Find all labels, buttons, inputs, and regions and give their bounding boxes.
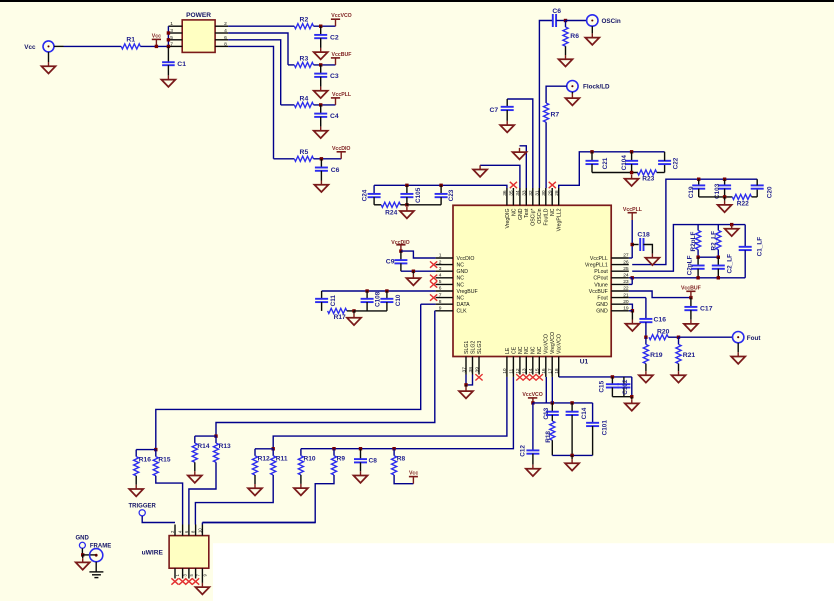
svg-text:Test: Test [524,208,530,218]
svg-text:6: 6 [439,286,442,292]
svg-text:DATA: DATA [457,302,471,308]
svg-text:R22: R22 [737,201,749,208]
svg-text:C19: C19 [688,186,695,198]
svg-text:VccPLL: VccPLL [332,92,352,98]
svg-text:27: 27 [623,253,629,259]
svg-text:21: 21 [623,292,629,298]
svg-text:SLG1: SLG1 [464,341,470,354]
svg-text:C6: C6 [331,167,340,174]
svg-text:R11: R11 [276,456,288,463]
svg-text:C10: C10 [395,294,402,306]
svg-text:38: 38 [468,367,474,373]
svg-text:R15: R15 [158,456,170,463]
svg-text:4: 4 [439,273,442,279]
svg-text:CE: CE [511,346,517,354]
svg-text:C2_LF: C2_LF [727,254,734,274]
svg-text:NC: NC [457,263,465,269]
svg-text:5: 5 [439,279,442,285]
svg-text:R14: R14 [197,443,209,450]
svg-text:R17: R17 [334,314,346,321]
svg-text:R6: R6 [570,33,579,40]
svg-text:C17: C17 [700,305,713,312]
svg-text:Vcc: Vcc [152,33,161,39]
svg-text:R13: R13 [219,443,231,450]
svg-text:SLG2: SLG2 [470,341,476,354]
svg-text:26: 26 [623,259,629,265]
svg-text:2: 2 [224,21,227,27]
svg-text:C105: C105 [415,187,422,203]
svg-text:NC: NC [457,296,465,302]
svg-text:NC: NC [531,346,537,354]
svg-text:R18: R18 [545,431,552,443]
svg-text:4: 4 [224,28,227,34]
svg-text:C1_LF: C1_LF [756,237,763,257]
svg-text:VccVCO: VccVCO [544,334,550,354]
svg-text:R12: R12 [258,456,270,463]
svg-text:3: 3 [439,266,442,272]
svg-text:R21: R21 [683,352,696,359]
svg-text:GND: GND [457,269,469,275]
svg-text:20: 20 [623,299,629,305]
svg-text:GND: GND [596,302,608,308]
svg-text:SLG3: SLG3 [477,341,483,354]
svg-text:8: 8 [439,299,442,305]
svg-text:C18: C18 [637,232,650,239]
svg-text:34: 34 [515,190,521,196]
svg-text:VccDIO: VccDIO [332,146,350,152]
svg-text:36: 36 [502,190,508,196]
svg-text:R23: R23 [642,176,654,183]
svg-text:CPout: CPout [593,276,608,282]
svg-text:Vcc: Vcc [24,44,36,51]
svg-text:NC: NC [537,346,543,354]
svg-text:VregVCO: VregVCO [550,332,556,354]
svg-text:NC: NC [457,282,465,288]
svg-text:C7: C7 [490,107,499,114]
svg-text:14: 14 [528,368,534,374]
svg-text:NC: NC [518,346,524,354]
svg-text:NC: NC [457,276,465,282]
svg-text:33: 33 [522,190,528,196]
svg-text:R2: R2 [300,17,309,24]
svg-text:GND: GND [596,309,608,315]
svg-text:C9: C9 [386,258,395,265]
svg-text:15: 15 [535,368,541,374]
svg-text:39: 39 [474,367,480,373]
svg-text:C14: C14 [581,407,588,419]
svg-text:NC: NC [524,346,530,354]
svg-text:1: 1 [439,253,442,259]
svg-text:PLout: PLout [594,269,608,275]
svg-text:POWER: POWER [186,12,211,19]
svg-text:R24: R24 [385,209,397,216]
svg-text:C104: C104 [621,155,628,171]
svg-text:VccVCO: VccVCO [331,13,351,19]
svg-text:22: 22 [623,286,629,292]
svg-text:NC: NC [550,208,556,216]
svg-text:GND: GND [518,208,524,220]
svg-text:C12: C12 [519,445,526,457]
svg-text:C23: C23 [448,189,455,201]
svg-text:C22: C22 [673,157,680,169]
svg-text:30: 30 [541,190,547,196]
svg-text:C15: C15 [599,380,606,392]
svg-text:19: 19 [623,306,629,312]
svg-text:R2_LF: R2_LF [710,231,717,251]
svg-text:24: 24 [623,273,629,279]
svg-text:C11: C11 [330,295,337,307]
svg-text:R20: R20 [657,329,670,336]
svg-text:7: 7 [439,292,442,298]
svg-text:R3: R3 [300,55,309,62]
svg-text:NC: NC [511,208,517,216]
svg-text:R19: R19 [650,352,663,359]
svg-text:Fout: Fout [597,296,608,302]
svg-text:C1: C1 [177,61,186,68]
svg-text:11: 11 [509,368,515,373]
svg-text:Vtune: Vtune [594,282,608,288]
svg-text:VccDIO: VccDIO [457,256,475,262]
svg-text:GND: GND [76,535,90,541]
svg-text:Fout: Fout [747,335,762,342]
svg-text:R5: R5 [300,149,309,156]
svg-text:VccVCO: VccVCO [557,334,563,354]
svg-text:VccBUF: VccBUF [681,285,701,291]
svg-text:C21: C21 [602,157,609,169]
svg-text:23: 23 [623,279,629,285]
svg-text:7: 7 [170,41,173,47]
svg-text:R16: R16 [139,456,151,463]
svg-text:C2: C2 [330,35,339,42]
svg-text:9: 9 [439,306,442,312]
svg-text:25: 25 [623,266,629,272]
svg-text:28: 28 [554,190,560,196]
svg-text:R9: R9 [337,456,346,463]
svg-text:37: 37 [461,367,467,373]
svg-text:C101: C101 [602,420,609,436]
svg-text:C13: C13 [543,407,550,419]
svg-text:31: 31 [535,190,541,196]
svg-text:CLK: CLK [457,309,468,315]
svg-text:R2pLF: R2pLF [690,232,697,252]
svg-text:C3: C3 [330,73,339,80]
svg-text:29: 29 [548,190,554,196]
svg-text:5: 5 [170,35,173,41]
svg-text:6: 6 [224,35,227,41]
svg-text:VregPLL2: VregPLL2 [557,208,563,231]
svg-text:R4: R4 [300,95,309,102]
svg-text:2: 2 [439,259,442,265]
svg-text:VregPLL1: VregPLL1 [585,263,608,269]
svg-text:R1: R1 [126,36,135,43]
svg-text:1: 1 [170,21,173,27]
svg-text:VregBUF: VregBUF [457,289,478,295]
svg-text:R8: R8 [397,456,406,463]
svg-text:32: 32 [528,190,534,196]
svg-text:VccPLL: VccPLL [590,256,608,262]
svg-text:VccBUF: VccBUF [332,52,352,58]
svg-text:18: 18 [554,368,560,374]
svg-text:C4: C4 [330,113,339,120]
svg-text:12: 12 [515,368,521,374]
svg-text:R10: R10 [304,456,316,463]
svg-text:17: 17 [548,368,554,374]
svg-text:FoutLD: FoutLD [544,208,550,225]
svg-text:C16: C16 [654,316,667,323]
svg-text:VregDIG: VregDIG [505,209,511,229]
svg-text:uWIRE: uWIRE [142,549,164,556]
svg-text:C6: C6 [552,8,561,15]
svg-text:Vcc: Vcc [409,471,418,477]
svg-text:35: 35 [509,190,515,196]
svg-text:OSCip*: OSCip* [531,209,537,226]
svg-text:C20: C20 [767,186,774,198]
svg-text:Flock/LD: Flock/LD [583,84,610,91]
svg-text:8: 8 [224,41,227,47]
svg-text:3: 3 [170,28,173,34]
svg-text:R7: R7 [551,112,560,119]
svg-text:C2pLF: C2pLF [686,255,693,275]
svg-text:VccBUF: VccBUF [589,289,608,295]
svg-text:OSCin: OSCin [602,18,621,25]
svg-text:TRIGGER: TRIGGER [129,503,157,509]
svg-text:10: 10 [502,368,508,374]
svg-text:13: 13 [522,368,528,374]
svg-text:10: 10 [198,528,203,533]
svg-text:C8: C8 [369,458,378,465]
svg-text:C102: C102 [622,379,629,395]
svg-text:16: 16 [541,368,547,374]
svg-text:LE: LE [505,347,511,354]
svg-text:U1: U1 [580,358,589,365]
svg-text:C24: C24 [361,189,368,201]
svg-text:OSCin: OSCin [537,208,543,223]
